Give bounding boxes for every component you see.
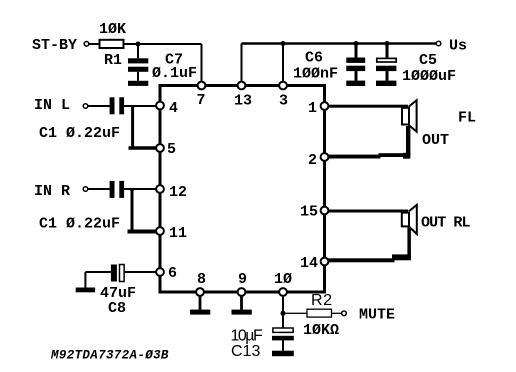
svg-text:6: 6 [168, 265, 177, 282]
svg-text:R1: R1 [104, 52, 122, 69]
svg-text:M92TDA7372A-Ø3B: M92TDA7372A-Ø3B [50, 349, 169, 363]
svg-text:OUT: OUT [422, 132, 449, 149]
svg-text:5: 5 [167, 141, 176, 158]
svg-text:1ØKΩ: 1ØKΩ [303, 322, 339, 339]
svg-text:MUTE: MUTE [359, 307, 395, 324]
svg-text:C13: C13 [231, 343, 260, 360]
svg-text:14: 14 [300, 255, 318, 272]
svg-text:IN L: IN L [34, 97, 70, 114]
svg-text:12: 12 [169, 184, 187, 201]
svg-text:FL: FL [458, 110, 476, 127]
svg-text:1ØØØuF: 1ØØØuF [402, 68, 456, 85]
svg-text:C5: C5 [419, 52, 437, 69]
svg-text:Ø.1uF: Ø.1uF [152, 65, 197, 82]
svg-text:ST-BY: ST-BY [32, 37, 77, 54]
svg-text:OUT RL: OUT RL [421, 215, 471, 232]
svg-text:C1 Ø.22uF: C1 Ø.22uF [39, 216, 120, 233]
svg-text:13: 13 [234, 93, 252, 110]
svg-text:C6: C6 [305, 50, 323, 67]
svg-text:10µF: 10µF [231, 328, 264, 345]
svg-text:2: 2 [308, 152, 317, 169]
svg-text:C1 Ø.22uF: C1 Ø.22uF [39, 125, 120, 142]
svg-text:R2: R2 [311, 292, 333, 309]
svg-text:11: 11 [169, 225, 187, 242]
svg-text:4: 4 [169, 100, 178, 117]
svg-text:1ØØnF: 1ØØnF [293, 66, 338, 83]
svg-text:3: 3 [279, 93, 288, 110]
svg-text:C8: C8 [108, 300, 126, 317]
svg-text:15: 15 [300, 204, 318, 221]
svg-text:IN R: IN R [34, 183, 70, 200]
svg-text:1Ø: 1Ø [274, 271, 292, 288]
svg-text:8: 8 [197, 271, 206, 288]
svg-text:1ØK: 1ØK [99, 21, 126, 38]
svg-text:Us: Us [449, 38, 467, 55]
svg-text:9: 9 [238, 271, 247, 288]
svg-text:7: 7 [197, 92, 206, 109]
svg-text:1: 1 [308, 100, 317, 117]
